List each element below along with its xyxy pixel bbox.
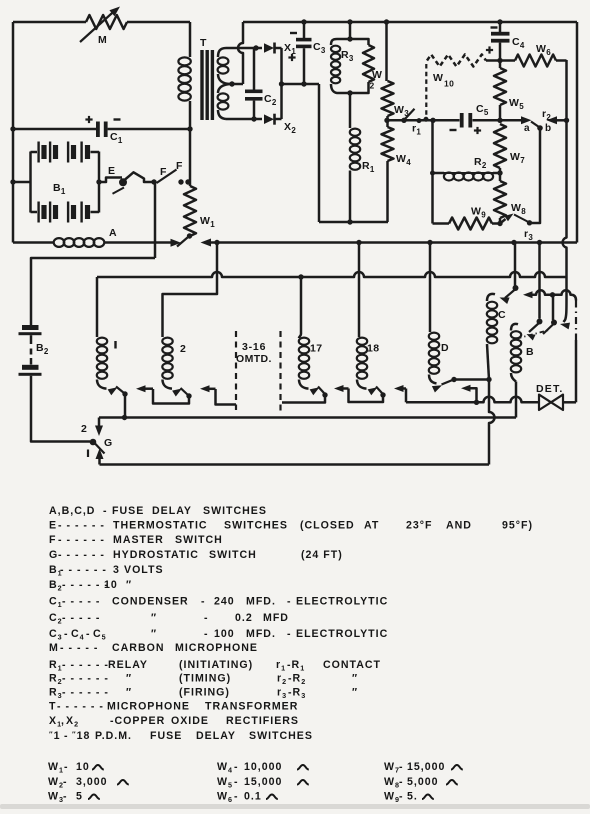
node blade2 feed bbox=[550, 292, 555, 297]
wire coil18 chain to coil17 bbox=[349, 389, 384, 403]
resistor W2 bbox=[350, 39, 369, 45]
svg-text:A: A bbox=[109, 227, 117, 239]
resistor W7 bbox=[494, 124, 506, 168]
svg-text:B1 - - - - - -3VOLTS: B1 - - - - - -3VOLTS bbox=[49, 564, 164, 578]
switch B blade 1 bbox=[537, 319, 543, 325]
arrow coil2 wiper bbox=[172, 389, 182, 397]
wire to B2 bbox=[31, 258, 155, 325]
resistor W1 bbox=[184, 186, 196, 236]
wire X1/X2 output vertical bbox=[280, 48, 283, 119]
node C3 bottom bbox=[301, 81, 306, 86]
node W3 top bbox=[384, 19, 389, 24]
wire main vertical F column bbox=[189, 129, 192, 186]
capacitor C4 bbox=[499, 22, 502, 32]
svg-text:C: C bbox=[498, 309, 506, 321]
wire rectifier output bus bbox=[282, 83, 320, 86]
wire top rail left segment bbox=[13, 21, 86, 24]
capacitor C2 bbox=[253, 48, 256, 90]
wire coilD contact to C bottom bbox=[454, 378, 489, 381]
wire B2 to G bbox=[31, 376, 90, 442]
wire rail2 with hops bbox=[97, 272, 567, 277]
scan smudge bottom bbox=[0, 804, 590, 809]
wire to detonator with hops bbox=[477, 397, 540, 403]
wire secondary bottom to X2 bbox=[226, 118, 262, 121]
wire B1 left bbox=[13, 181, 31, 184]
svg-text:W: W bbox=[372, 69, 382, 81]
wire C5 row bbox=[433, 119, 460, 122]
node W1 bottom bbox=[187, 233, 192, 238]
svg-text:W2 -3,000: W2 -3,000 bbox=[48, 776, 108, 790]
resistor W10 (dashed) bbox=[427, 55, 486, 67]
node X output junction bbox=[279, 81, 284, 86]
carbon microphone M (variable resistor) bbox=[86, 15, 127, 29]
wire coil18 riser bbox=[358, 243, 361, 338]
wire shaft corner to dashed link bbox=[571, 295, 576, 301]
relay R1 coil bbox=[349, 93, 352, 128]
svg-text:G: G bbox=[104, 437, 113, 449]
svg-text:R1 - - - - - -RELAY(INITIATING: R1 - - - - - -RELAY(INITIATING)r1 -R1 CO… bbox=[49, 659, 381, 673]
node W3-W4 junction bbox=[384, 118, 389, 123]
svg-text:2: 2 bbox=[81, 423, 87, 435]
svg-text:T: T bbox=[200, 37, 207, 49]
svg-text:W7 -15,000: W7 -15,000 bbox=[384, 761, 445, 775]
contact r1 bbox=[417, 118, 422, 123]
svg-text:C1 - - - - -CONDENSER-240MFD.-: C1 - - - - -CONDENSER-240MFD.-ELECTROLYT… bbox=[49, 596, 388, 610]
node coil1 contact bbox=[122, 391, 127, 396]
transformer T core bbox=[200, 50, 203, 120]
wire coil1 contact to bus2 bbox=[124, 394, 127, 418]
svg-text:a: a bbox=[524, 123, 530, 134]
svg-text:W8 -5,000: W8 -5,000 bbox=[384, 776, 439, 790]
node r2 wire bbox=[564, 118, 569, 123]
node R3 box top bbox=[347, 19, 352, 24]
node W5-W6-W10 junction bbox=[497, 58, 502, 63]
wire chain D feed arrow bbox=[461, 385, 471, 392]
detonator DET bbox=[539, 395, 551, 410]
relay coil 17 bbox=[299, 334, 301, 338]
node W8 bottom bbox=[497, 221, 502, 226]
rectifier X2 bbox=[264, 114, 274, 124]
node center tap bbox=[229, 81, 234, 86]
node DET wire junction bbox=[474, 400, 479, 405]
rectifier X1 bbox=[264, 43, 274, 53]
svg-text:3-16: 3-16 bbox=[242, 341, 266, 353]
svg-text:10: 10 bbox=[444, 79, 454, 89]
svg-text:2: 2 bbox=[370, 81, 375, 91]
relay R3 coil bbox=[331, 39, 350, 45]
svg-text:17: 17 bbox=[310, 343, 322, 355]
node R3 box bottom bbox=[347, 90, 352, 95]
wire r2 vertical to blade2 arrow bbox=[564, 276, 567, 322]
node B1 right bbox=[96, 179, 101, 184]
wire chain to coil18 bbox=[405, 389, 408, 403]
wire C bottom to bus1 with hop bbox=[489, 380, 495, 465]
svg-text:F: F bbox=[160, 166, 167, 178]
wire blade1 riser from rail1 bbox=[538, 243, 541, 319]
capacitor C3 bbox=[303, 22, 306, 38]
arrow rail1 to W1 wiper bbox=[201, 239, 212, 247]
wire top rail right edge down bbox=[576, 22, 579, 243]
relay coil B bbox=[511, 324, 518, 331]
arrow r2 bbox=[547, 116, 558, 124]
node coil2 contact bbox=[186, 393, 191, 398]
resistor W4 bbox=[386, 120, 389, 127]
wire r1 column down bbox=[431, 120, 434, 223]
node C1 right bbox=[187, 126, 192, 131]
svg-text:2: 2 bbox=[180, 343, 186, 355]
wire R3 box riser bbox=[349, 22, 352, 39]
node coil17 riser bbox=[298, 274, 303, 279]
node C2 top junction bbox=[253, 45, 258, 50]
transformer T primary winding bbox=[178, 57, 190, 65]
wire W6-r2 vertical with hop over rail1 bbox=[563, 60, 567, 276]
wire A row bbox=[13, 241, 54, 244]
switch C pivot bbox=[513, 285, 519, 291]
capacitor C1 bbox=[96, 122, 100, 138]
svg-text:F- - - - - -MASTERSWITCH: F- - - - - -MASTERSWITCH bbox=[49, 534, 223, 546]
wire left vertical rail bbox=[12, 22, 15, 243]
node C3 top bbox=[301, 19, 306, 24]
switch B blade 2 bbox=[551, 320, 557, 326]
relay R2 coil bbox=[433, 172, 445, 175]
mechanical link dash bbox=[517, 330, 549, 339]
arrow coil18 wiper bbox=[368, 387, 378, 395]
wire E-F junction down bbox=[154, 182, 157, 258]
svg-text:E: E bbox=[108, 165, 115, 177]
dashed box relays 3-16 omitted bbox=[235, 331, 237, 410]
node C1 left bbox=[10, 126, 15, 131]
svg-text:OMTD.: OMTD. bbox=[236, 353, 272, 365]
wire primary riser bbox=[189, 22, 192, 57]
node R2 junction bbox=[430, 171, 435, 176]
relay coil 2 bbox=[162, 338, 172, 345]
battery B2 bbox=[22, 325, 39, 330]
transformer T secondary lower winding bbox=[218, 84, 232, 93]
arrow coil1 wiper bbox=[108, 387, 118, 395]
wire r1 row bbox=[389, 119, 433, 122]
wiper blade W1 bbox=[177, 238, 188, 247]
svg-text:W3 -5: W3 -5 bbox=[48, 791, 83, 805]
node C coil bottom bbox=[486, 377, 491, 382]
wire bus 1 bbox=[100, 463, 490, 466]
svg-text:C3 -C4 -C5 ″-100MFD.-ELECTROLY: C3 -C4 -C5 ″-100MFD.-ELECTROLYTIC bbox=[49, 628, 388, 642]
node B1 left bbox=[10, 179, 15, 184]
wire C pivot riser from rail1 bbox=[514, 243, 517, 286]
blade C with arrow bbox=[505, 289, 516, 298]
node W5 bottom bbox=[497, 118, 502, 123]
master switch F bbox=[157, 170, 177, 184]
resistor W8 bbox=[499, 173, 502, 181]
svg-text:″1-″18P.D.M.FUSEDELAYSWITCHES: ″1-″18P.D.M.FUSEDELAYSWITCHES bbox=[49, 730, 313, 743]
svg-text:F: F bbox=[176, 160, 183, 172]
contact shaft row bbox=[523, 291, 533, 298]
transformer T secondary upper winding bbox=[218, 48, 226, 57]
node C4 top bbox=[497, 19, 502, 24]
resistor W9 bbox=[433, 222, 450, 225]
svg-text:D: D bbox=[441, 342, 449, 354]
relay coil C bbox=[487, 294, 495, 301]
wire b contact down to r3 bbox=[532, 128, 540, 223]
inductor A bbox=[54, 238, 65, 247]
wire coil17 chain to box bbox=[282, 395, 325, 403]
arrow to W1 wiper bbox=[171, 239, 182, 247]
battery B1 bbox=[29, 152, 32, 213]
wire coil17 riser bbox=[300, 277, 303, 334]
svg-text:W: W bbox=[433, 72, 443, 84]
arrow coilD wiper bbox=[432, 385, 442, 392]
relay coil 1 bbox=[96, 277, 99, 337]
wire B bottom to bus2 bbox=[515, 382, 518, 418]
wire C1 row bbox=[13, 128, 96, 131]
wire rail1 bbox=[210, 241, 578, 244]
node r1 right bbox=[430, 118, 435, 123]
node E-F junction bbox=[151, 179, 156, 184]
node R1 bottom bbox=[347, 219, 352, 224]
wiper blade W8 to r3 bbox=[500, 219, 506, 224]
wire bus 2 bbox=[99, 416, 516, 419]
relay coil D bbox=[429, 333, 439, 340]
arrow coil17 wiper bbox=[310, 387, 320, 395]
svg-text:M- - - - -CARBONMICROPHONE: M- - - - -CARBONMICROPHONE bbox=[49, 642, 258, 654]
thermostatic switch E bbox=[99, 178, 122, 183]
wire center-tap rail riser with hop bbox=[238, 22, 243, 84]
wire W10 dashed drop to r1 bbox=[425, 64, 427, 115]
svg-text:DET.: DET. bbox=[536, 383, 564, 395]
svg-text:T- - - - - -MICROPHONETRANSFOR: T- - - - - -MICROPHONETRANSFORMER bbox=[49, 701, 298, 713]
svg-text:W9 -5.: W9 -5. bbox=[384, 791, 418, 805]
wire coil2 chain to coil1 bbox=[153, 389, 189, 404]
svg-text:b: b bbox=[545, 123, 552, 134]
capacitor C5 bbox=[460, 113, 464, 128]
svg-text:B: B bbox=[526, 346, 534, 358]
svg-text:W4 -10,000: W4 -10,000 bbox=[217, 761, 282, 775]
node coil18 contact bbox=[380, 392, 385, 397]
resistor W6 bbox=[500, 59, 515, 62]
resistor W5 bbox=[499, 61, 502, 69]
blade b bbox=[531, 122, 539, 128]
svg-text:M: M bbox=[98, 34, 107, 46]
arrow G contact 1 bbox=[96, 449, 104, 460]
relay coil 18 bbox=[357, 338, 367, 345]
node C2 bottom junction bbox=[251, 116, 256, 121]
svg-text:18: 18 bbox=[367, 343, 379, 355]
hydrostatic switch G bbox=[90, 439, 97, 446]
wire secondary top to X1 bbox=[226, 47, 262, 50]
arrow G contact 2 bbox=[98, 418, 101, 429]
contact r3 bbox=[527, 220, 532, 225]
wire output down-left column bbox=[318, 84, 321, 222]
wire coil2 feed from rail1 bbox=[163, 243, 218, 338]
svg-text:A,B,C,D-FUSEDELAYSWITCHES: A,B,C,D-FUSEDELAYSWITCHES bbox=[49, 505, 267, 517]
node coilD contact bbox=[451, 377, 456, 382]
resistor W3 bbox=[385, 22, 388, 81]
wire chain into box left bbox=[216, 389, 237, 405]
node R3 box top bbox=[347, 36, 352, 41]
wiper blade W3 bbox=[401, 118, 406, 123]
arrow contact a bbox=[500, 119, 522, 122]
node coil17 contact bbox=[322, 392, 327, 397]
wire top rail right segment bbox=[243, 21, 577, 24]
wire coilD riser bbox=[429, 243, 432, 333]
svg-text:W5 -15,000: W5 -15,000 bbox=[217, 776, 282, 790]
